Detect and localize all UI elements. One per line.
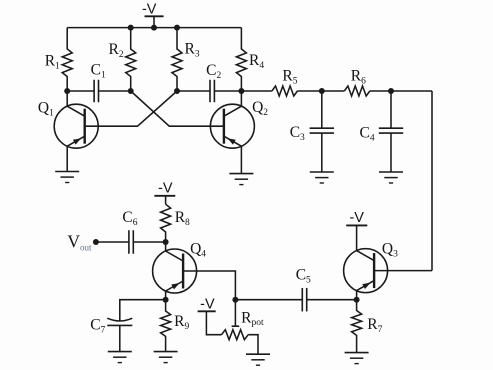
power -V supply (Q3 collector) — [346, 210, 367, 250]
transistor Q2 emitter lead — [224, 136, 242, 173]
wire cross-couple R3 node to Q1 base — [85, 91, 177, 126]
junction dot node C3 — [319, 88, 325, 94]
resistor R3 — [172, 28, 182, 91]
label Q3 — [382, 241, 398, 260]
transistor Q1 base bar — [83, 109, 85, 144]
capacitor C7 (polarized) — [107, 318, 132, 351]
label R8 — [175, 209, 190, 228]
resistor R2 — [126, 28, 136, 91]
wire top rail — [67, 27, 241, 29]
potentiometer Rpot wiper — [232, 300, 240, 327]
label R3 — [185, 41, 200, 60]
transistor Q1 body — [54, 104, 98, 148]
wire Q4 base to wiper drop — [183, 271, 235, 300]
ground under C4 — [379, 172, 403, 183]
svg-text:-V: -V — [142, 2, 157, 18]
junction dot R3 top — [174, 25, 180, 31]
wire R4 node to R5 — [241, 90, 272, 92]
ground under C7 — [108, 352, 132, 363]
junction dot supply tap — [151, 25, 157, 31]
wire cross-couple R2 node to Q2 base — [131, 91, 224, 126]
power -V supply (top rail) — [142, 2, 164, 28]
wire C2 to R4 bottom — [215, 90, 242, 92]
resistor R7 — [352, 300, 362, 353]
transistor Q3 body — [344, 249, 388, 293]
transistor Q3 emitter arrow — [362, 283, 370, 289]
capacitor C5 — [302, 288, 306, 312]
transistor Q3 base bar — [373, 253, 375, 288]
capacitor C3 — [310, 91, 334, 172]
junction dot R2 top — [128, 25, 134, 31]
wire Vout to C6 — [96, 241, 129, 243]
resistor R5 — [272, 86, 298, 96]
wire C3 node to R6 — [322, 90, 345, 92]
label Q4 — [190, 240, 206, 259]
junction dot node R3/C2 — [174, 88, 180, 94]
label Q1 — [38, 99, 54, 118]
label C6 — [122, 209, 137, 228]
wire Rpot to ground — [248, 335, 258, 355]
terminal dot Vout — [93, 239, 99, 245]
wire C5 to Q3 emitter node — [307, 299, 357, 301]
junction dot node C4 — [388, 88, 394, 94]
transistor Q1 emitter arrow — [73, 138, 81, 144]
resistor R4 — [236, 28, 246, 91]
label R1 — [45, 52, 60, 71]
junction dot node Q3 emitter/R7 — [354, 297, 360, 303]
resistor R8 — [161, 204, 171, 242]
svg-text:-V: -V — [349, 210, 364, 226]
transistor Q4 base bar — [182, 254, 184, 289]
label C2 — [206, 62, 221, 81]
label R6 — [351, 68, 366, 87]
junction dot node R8/C6/Q4 collector — [163, 239, 169, 245]
svg-text:-V: -V — [158, 181, 173, 197]
label C1 — [91, 62, 106, 81]
label C3 — [290, 124, 305, 143]
wire feedback down right side — [431, 91, 433, 271]
label Vout — [67, 231, 92, 252]
transistor Q4 emitter lead — [166, 281, 184, 300]
resistor R9 — [161, 300, 171, 352]
ground under R7 — [345, 353, 369, 364]
transistor Q2 emitter arrow — [227, 138, 235, 144]
wire R5 to C3 node — [297, 90, 321, 92]
wire C6 to R8 node — [133, 241, 165, 243]
transistor Q4 collector lead — [166, 242, 184, 261]
label Q2 — [252, 99, 268, 118]
transistor Q3 emitter lead — [357, 281, 375, 300]
wire feedback to Q3 base — [374, 270, 432, 272]
transistor Q1 collector lead — [67, 91, 85, 116]
wire R3 bottom to C2 — [177, 90, 210, 92]
ground under R9 — [154, 352, 178, 363]
label R9 — [174, 313, 189, 332]
wire C1 to R2 bottom — [99, 90, 131, 92]
label R7 — [367, 316, 382, 335]
junction dot node Q4 emitter — [163, 297, 169, 303]
potentiometer Rpot body — [222, 330, 249, 340]
capacitor C1 — [94, 80, 98, 103]
ground under Q2 — [229, 174, 253, 185]
junction dot node R1/Q1 collector — [64, 88, 70, 94]
capacitor C2 — [210, 80, 214, 103]
label C4 — [360, 124, 375, 143]
capacitor C4 — [379, 91, 403, 172]
svg-text:-V: -V — [200, 297, 215, 313]
resistor R6 — [344, 86, 370, 96]
power -V supply (Rpot) — [198, 297, 222, 335]
label Rpot — [241, 310, 264, 329]
junction dot wiper node — [232, 297, 238, 303]
transistor Q4 emitter arrow — [171, 283, 179, 289]
wire wiper node to C5 — [235, 299, 302, 301]
ground under Rpot — [246, 354, 270, 365]
wire R6 to C4 node — [370, 90, 391, 92]
ground under C3 — [310, 172, 334, 183]
label C5 — [296, 267, 311, 286]
transistor Q2 body — [210, 104, 254, 148]
junction dot node R4/Q2 collector — [238, 88, 244, 94]
transistor Q2 collector lead — [224, 91, 242, 116]
ground under Q1 — [55, 172, 79, 183]
label R2 — [109, 41, 124, 60]
wire Q4 emitter to C7 — [120, 300, 166, 321]
capacitor C6 — [129, 230, 133, 254]
transistor Q4 body — [153, 249, 197, 293]
transistor Q3 collector lead — [357, 251, 375, 261]
wire C4 node to feedback corner — [391, 90, 432, 92]
label R4 — [249, 52, 264, 71]
transistor Q1 emitter lead — [67, 136, 85, 171]
junction dot node R2/C1 — [128, 88, 134, 94]
transistor Q2 base bar — [223, 109, 225, 144]
wire R1 bottom to C1 — [67, 90, 94, 92]
resistor R1 — [62, 28, 72, 91]
power -V supply (R8 top) — [154, 181, 175, 205]
label R5 — [282, 67, 297, 86]
label C7 — [90, 316, 105, 335]
